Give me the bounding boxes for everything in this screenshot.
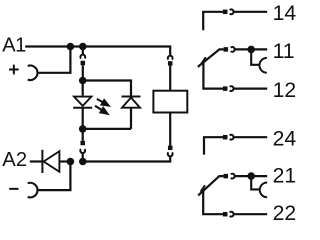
socket contact 24 xyxy=(230,135,234,140)
socket of LED-branch lower plug-in contact xyxy=(80,149,85,153)
test socket at terminal 11 xyxy=(251,49,260,64)
wire pin to coil K1 xyxy=(169,66,171,91)
contact arm of changeover 2 xyxy=(198,176,223,195)
socket clamp - terminal xyxy=(28,183,38,198)
wire socket to terminal 11 xyxy=(235,48,268,50)
wire NC contact 22 with stub xyxy=(203,190,223,215)
node LED branch bottom xyxy=(79,125,87,133)
reverse diode triangle xyxy=(44,151,60,172)
wire socket to terminal 14 xyxy=(234,11,268,13)
pin contact 14 xyxy=(223,10,228,15)
socket contact 21 xyxy=(231,174,235,179)
wire diode to A2 junction xyxy=(60,160,70,162)
freewheel diode cathode bar xyxy=(122,96,141,98)
pin contact 22 xyxy=(223,212,228,217)
junction on line 11 xyxy=(247,46,255,54)
svg-text:A1: A1 xyxy=(2,35,26,57)
relay coil K1 xyxy=(153,91,187,113)
svg-text:A2: A2 xyxy=(2,149,27,171)
wire socket to terminal 12 xyxy=(234,87,268,89)
socket contact 12 xyxy=(230,86,234,91)
svg-text:11: 11 xyxy=(273,40,295,63)
wire NO contact 24 with stub xyxy=(204,137,223,154)
pin of coil lower plug-in contact xyxy=(168,146,173,151)
LED cathode wire xyxy=(82,108,84,129)
wire A2 terminal to diode xyxy=(30,160,43,162)
svg-text:12: 12 xyxy=(273,79,297,102)
wire top rail to diode branch xyxy=(83,81,131,96)
freewheel diode anode wire xyxy=(130,108,132,129)
socket of coil lower plug-in contact xyxy=(168,152,173,156)
minus polarity label xyxy=(9,188,18,190)
socket clamp + terminal xyxy=(28,66,38,81)
svg-text:24: 24 xyxy=(273,127,297,150)
wire bottom node to pin xyxy=(82,129,84,141)
wire pin to LED top node xyxy=(82,65,84,80)
socket contact 11 xyxy=(231,47,235,52)
wire socket to A2 junction xyxy=(82,153,84,162)
reverse diode cathode bar xyxy=(41,150,43,173)
pin of LED-branch lower plug-in contact xyxy=(80,141,85,146)
wire NC contact 12 with stub xyxy=(203,61,223,89)
wire bottom rail of LED/diode pair xyxy=(83,128,131,130)
svg-text:22: 22 xyxy=(273,202,297,223)
junction A1 rail to + clamp xyxy=(67,43,75,51)
wire A1 rail to coil xyxy=(25,47,170,56)
svg-text:14: 14 xyxy=(273,2,297,25)
pin of LED-branch upper plug-in contact xyxy=(81,61,86,66)
wire socket to terminal 24 xyxy=(234,136,268,138)
pin contact 24 xyxy=(223,135,228,140)
pin contact 21 xyxy=(224,174,229,179)
wire A1 junction to socket xyxy=(82,47,84,55)
contact arm of changeover 1 xyxy=(198,49,224,67)
socket contact 14 xyxy=(230,9,234,14)
LED D1 anode wire xyxy=(82,81,84,96)
LED D1 cathode bar xyxy=(73,107,92,109)
pin of coil upper plug-in contact xyxy=(168,61,173,66)
wire coil K1 to pin xyxy=(169,113,171,146)
socket of coil upper plug-in contact xyxy=(168,56,173,60)
wire socket to terminal 21 xyxy=(235,175,268,177)
plus polarity label xyxy=(9,65,19,75)
junction A1 rail to LED branch xyxy=(79,43,87,51)
LED D1 triangle xyxy=(74,97,91,106)
wire socket to terminal 22 xyxy=(234,213,268,215)
junction A2 rail to LED branch xyxy=(79,158,87,166)
LED light arrow 1 xyxy=(97,99,103,103)
socket contact 22 xyxy=(230,212,234,217)
wire + clamp to A1 junction xyxy=(38,47,71,73)
svg-text:21: 21 xyxy=(273,165,297,188)
junction A2 rail to - clamp xyxy=(67,158,75,166)
LED light arrow 2 xyxy=(95,106,101,110)
wire A2 rail to coil return xyxy=(83,156,170,161)
pin contact 12 xyxy=(223,86,228,91)
node LED branch top xyxy=(79,77,87,85)
wire - clamp to A2 junction xyxy=(38,162,71,191)
freewheel diode triangle xyxy=(122,98,140,108)
wire NO contact 14 with stub xyxy=(203,12,223,30)
NC fixed contact tick 2 xyxy=(201,185,205,192)
test socket at terminal 21 xyxy=(251,176,260,189)
socket of LED-branch upper plug-in contact xyxy=(80,55,85,59)
junction on line 21 xyxy=(247,172,255,180)
NC fixed contact tick 1 xyxy=(202,57,206,63)
pin contact 11 xyxy=(224,47,229,52)
